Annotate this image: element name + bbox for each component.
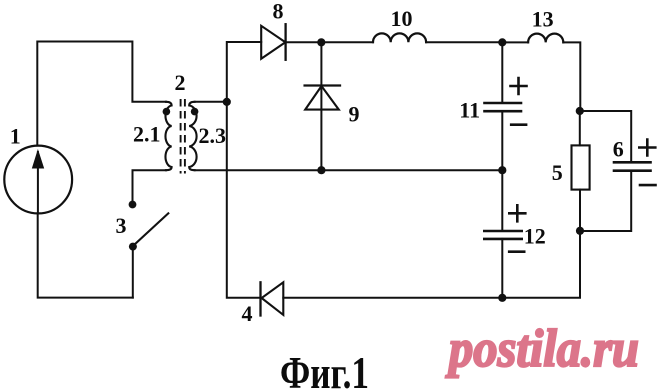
svg-text:Фиг.1: Фиг.1 [280, 348, 369, 390]
minus sign capacitor 6 [640, 184, 656, 187]
current source 1 circle [4, 146, 72, 214]
capacitor 11 top lead [501, 42, 503, 102]
wire: diode 8 cathode to node B [286, 41, 322, 43]
wire: source bottom down and right along bottom-left rail [38, 214, 133, 298]
current source arrow shaft [37, 152, 39, 212]
svg-text:postila.ru: postila.ru [445, 320, 639, 378]
switch 3 top contact dot [129, 201, 137, 209]
wire: source top up and right to primary top [37, 42, 166, 146]
node C dot at (502,42) [498, 38, 506, 46]
transformer polarity dot secondary [191, 108, 199, 116]
wire: node A down to diode 4 corner (crosses middle rail) [227, 102, 261, 298]
switch 3 bottom contact dot [129, 243, 137, 251]
wire: middle rail from secondary bottom to node F [195, 169, 503, 171]
svg-text:10: 10 [391, 6, 413, 31]
transformer 2 secondary winding 2.3 [189, 102, 196, 170]
svg-text:2.1: 2.1 [133, 121, 161, 146]
node E dot at (321,170) [317, 166, 325, 174]
resistor bottom node dot at (580,231) [576, 227, 584, 235]
node B dot at (321,42) [317, 38, 325, 46]
diode 8 cathode bar [284, 24, 286, 60]
capacitor 11 bottom lead [501, 111, 503, 170]
svg-text:2: 2 [175, 70, 186, 95]
plus sign capacitor 12 [509, 205, 525, 221]
transformer polarity dot primary [163, 108, 171, 116]
svg-text:13: 13 [532, 7, 554, 32]
capacitor 6 bottom lead wire to resistor bottom node [580, 171, 631, 231]
diode 4 triangle pointing left [262, 282, 284, 315]
wire: node C to inductor 13 [502, 41, 528, 43]
wire: inductor 13 right and down to node D [563, 42, 580, 110]
svg-text:2.3: 2.3 [198, 123, 226, 148]
node A dot at (227,102) [223, 98, 231, 106]
svg-text:5: 5 [552, 160, 563, 185]
switch 3 lever [135, 213, 169, 244]
capacitor 6 plates [614, 162, 651, 170]
svg-text:3: 3 [116, 213, 127, 238]
diode 9 cathode bar [305, 84, 340, 86]
resistor 5 top lead [579, 111, 581, 145]
transformer 2 primary winding 2.1 [165, 102, 171, 170]
capacitor 11 plates [485, 103, 522, 111]
transformer core dashed lines [181, 99, 185, 174]
capacitor 12 top lead [501, 170, 503, 231]
svg-text:6: 6 [613, 137, 624, 162]
diode 8 triangle [261, 26, 285, 59]
plus sign capacitor 11 [511, 78, 527, 94]
resistor 5 body [572, 145, 590, 189]
node F dot at (502,170) [498, 166, 506, 174]
minus sign capacitor 11 [511, 123, 526, 126]
inductor 10 [373, 33, 426, 42]
node G dot at (502,298) [498, 294, 506, 302]
current source arrowhead [32, 149, 44, 169]
svg-text:11: 11 [459, 97, 480, 122]
diode 9 triangle pointing up [305, 86, 339, 110]
diode 4 cathode bar [259, 282, 261, 315]
wire: inductor 10 to node C [426, 41, 502, 43]
capacitor 12 bottom lead [501, 239, 503, 298]
wire: secondary top to node A [195, 101, 227, 103]
resistor 5 bottom lead [579, 190, 581, 232]
wire: node G right and up to resistor bottom node [502, 232, 580, 298]
wire: node A up to diode 8 anode [227, 42, 261, 102]
svg-text:9: 9 [349, 101, 360, 126]
wire: diode 4 anode to node G [283, 297, 502, 299]
wire: node B to inductor 10 [321, 41, 373, 43]
capacitor 12 plates [484, 231, 521, 239]
wire: diode 9 branch vertical from node B to node E [320, 42, 322, 170]
wire: switch bottom down to bottom-left rail [132, 249, 134, 298]
svg-text:1: 1 [10, 123, 21, 148]
node D dot at (580,111) [576, 107, 584, 115]
minus sign capacitor 12 [509, 250, 524, 253]
svg-text:12: 12 [524, 223, 546, 248]
wire: primary bottom left to switch top [133, 170, 167, 202]
svg-text:4: 4 [242, 301, 253, 326]
inductor 13 [528, 34, 563, 43]
capacitor 6 top lead wire from node D [580, 111, 631, 162]
plus sign capacitor 6 [639, 140, 655, 156]
svg-text:8: 8 [273, 0, 284, 23]
